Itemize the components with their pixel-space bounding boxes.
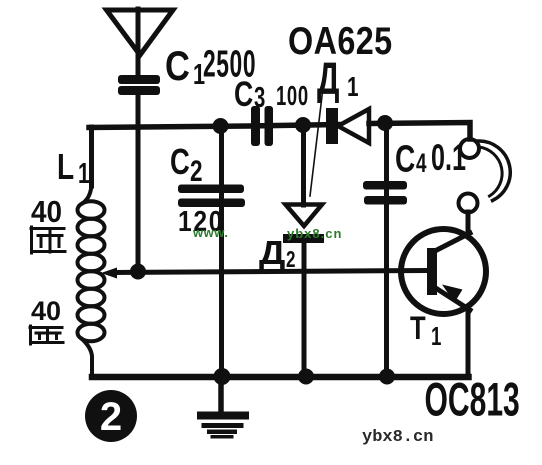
svg-text:C: C [234,74,253,113]
label D1 [317,55,359,105]
svg-text:2: 2 [286,248,295,273]
svg-text:OC813: OC813 [425,374,520,426]
wire: top bus (right segment, D1 cathode to phones) [369,123,470,140]
svg-text:www.: www. [192,225,228,240]
label C4 value 0.1 [395,136,466,181]
svg-text:C: C [170,141,190,182]
capacitor C3 [251,106,273,146]
label T1 [410,311,441,350]
svg-text:4: 4 [416,148,427,178]
headphones band [478,141,510,201]
svg-text:ybx8.cn: ybx8.cn [362,428,433,447]
capacitor C4 [363,181,407,205]
headphones (earpiece bottom) [459,194,478,213]
wire: bottom rail [92,374,469,381]
inductor L1 [78,184,105,375]
transistor T1 emitter arrow [442,285,463,303]
junction: C4 bottom [379,369,395,385]
wire: phones to transistor collector [466,212,471,236]
svg-text:40: 40 [31,195,62,230]
wire: C2 branch vertical [219,126,224,376]
svg-text:2: 2 [100,395,122,439]
wire: emitter down to bottom rail [466,308,471,377]
svg-text:T: T [410,311,426,346]
svg-text:1: 1 [431,321,441,351]
wire: D2 branch vertical (top bus to D2) [301,125,306,205]
transistor T1 base bar [427,248,437,295]
svg-text:2: 2 [190,154,203,188]
label C2 [170,141,203,187]
label C3 value 100 [234,74,309,113]
wire: left branch down to L1 [89,127,94,186]
wire: tap line (middle bus to transistor base) [115,271,427,273]
svg-text:Д: Д [317,55,339,105]
svg-text:C: C [165,43,190,90]
transistor T1 collector stroke [432,233,470,253]
junction: antenna line on tap bus [130,264,146,280]
wire: antenna/C1 down to tap node [136,95,141,270]
junction: D2 bottom [298,369,314,385]
label turns glyph upper [31,227,65,253]
capacitor C1 [118,75,160,95]
headphones (earpiece top) [460,139,479,158]
svg-text:OA625: OA625 [288,19,393,63]
junction: ground / C2 bottom [214,368,231,385]
label C1 value 2500 [165,43,256,91]
junction: C4 top / D1 out [377,115,393,131]
junction: C2 top [213,118,229,134]
transistor T1 circle [401,229,486,314]
figure number badge 2 [85,390,137,442]
svg-text:100: 100 [276,81,309,112]
svg-text:ybx8.cn: ybx8.cn [287,226,342,241]
wire: C4 branch vertical [384,123,389,376]
svg-text:1: 1 [78,158,90,190]
svg-text:40: 40 [31,296,61,326]
transistor T1 emitter stroke [434,287,470,310]
diode D1 (cathode bar + triangle pointing left) [326,108,369,144]
antenna [107,9,174,75]
wire: D2 to bottom rail [302,243,307,376]
coil tap arrow [101,268,117,279]
ground [197,380,249,439]
leader line from D label to D2 [310,92,323,196]
diode D2 (triangle pointing down + cathode bar) [283,205,324,244]
label D2 [259,235,295,273]
svg-text:1: 1 [347,72,359,103]
svg-text:C: C [395,139,415,181]
wire: top bus (left segment, L1 top to D1 anode bar) [89,125,338,128]
svg-text:L: L [57,147,74,187]
svg-text:3: 3 [254,82,265,114]
svg-text:Д: Д [259,235,285,272]
label turns glyph lower [30,326,63,344]
capacitor C2 [178,185,245,208]
junction: D2 top / D1 anode [295,117,311,133]
label L1 [57,147,90,190]
